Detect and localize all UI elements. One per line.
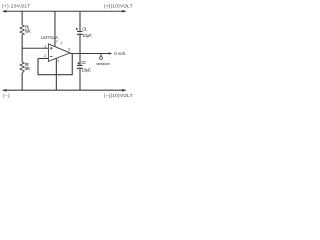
svg-text:0 volt: 0 volt (114, 51, 125, 56)
svg-text:3: 3 (44, 44, 46, 48)
svg-text:4: 4 (57, 59, 59, 63)
svg-text:C2: C2 (81, 60, 86, 65)
svg-text:(+)(10)VOLT: (+)(10)VOLT (104, 3, 133, 8)
svg-text:(+) 20VOLT: (+) 20VOLT (2, 3, 30, 8)
svg-text:(−)(10)VOLT: (−)(10)VOLT (104, 93, 133, 98)
svg-text:10µF,: 10µF, (82, 33, 92, 38)
svg-text:82K,: 82K, (25, 29, 31, 34)
svg-text:1: 1 (60, 41, 62, 45)
svg-text:10µF,: 10µF, (82, 67, 92, 72)
svg-text:(−): (−) (3, 93, 10, 98)
svg-text:tantalum: tantalum (97, 62, 110, 66)
svg-text:7: 7 (56, 39, 58, 43)
svg-text:6: 6 (68, 47, 70, 51)
svg-text:C1: C1 (82, 27, 87, 32)
svg-text:82K,: 82K, (25, 66, 31, 71)
svg-text:2: 2 (44, 54, 46, 58)
